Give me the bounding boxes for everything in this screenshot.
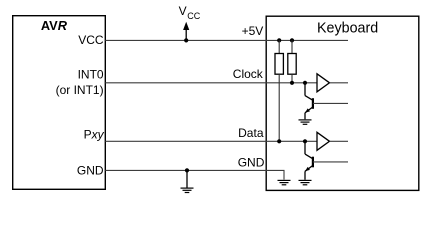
svg-text:VCC: VCC [78,33,104,47]
ground (Keyboard GND pin) [278,180,291,184]
svg-text:Data: Data [238,126,264,140]
svg-text:INT0: INT0 [78,67,104,81]
transistor Q2 (Data open-collector driver) [305,141,348,180]
svg-text:AVR: AVR [41,18,68,33]
node: R2 to Clock junction [290,81,294,85]
wire GND net [105,170,284,179]
buffer U3 (Data input buffer) [317,132,348,150]
ground (Clock driver emitter) [299,120,312,124]
svg-text:GND: GND [77,164,104,178]
wire INT0 / Clock net [105,82,317,84]
svg-text:CC: CC [187,11,200,21]
resistor R1 (pull-up to Data) [275,40,283,141]
wire Pxy / Data net [105,140,317,142]
svg-text:(or INT1): (or INT1) [56,83,104,97]
node: Clock transistor tap [303,81,307,85]
resistor R2 (pull-up to Clock) [288,40,296,82]
svg-text:Pxy: Pxy [84,128,105,142]
svg-text:V: V [179,4,187,18]
svg-text:+5V: +5V [242,24,264,38]
node: R1 to Data junction [277,139,281,143]
buffer U2 (Clock input buffer) [317,74,348,92]
ground (Data driver emitter) [299,180,312,184]
svg-text:Clock: Clock [233,67,264,81]
AVR box U1 [13,16,106,190]
svg-text:GND: GND [238,156,265,170]
Vcc supply symbol [179,4,201,42]
wire VCC / +5V net [105,39,348,41]
node: +5V junction at R2 [290,38,294,42]
svg-text:Keyboard: Keyboard [317,21,378,37]
node: Data transistor tap [303,139,307,143]
ground (AVR GND net) [181,168,194,192]
transistor Q1 (Clock open-collector driver) [305,83,348,120]
Keyboard box [266,16,419,190]
node: +5V junction at R1 [277,38,281,42]
